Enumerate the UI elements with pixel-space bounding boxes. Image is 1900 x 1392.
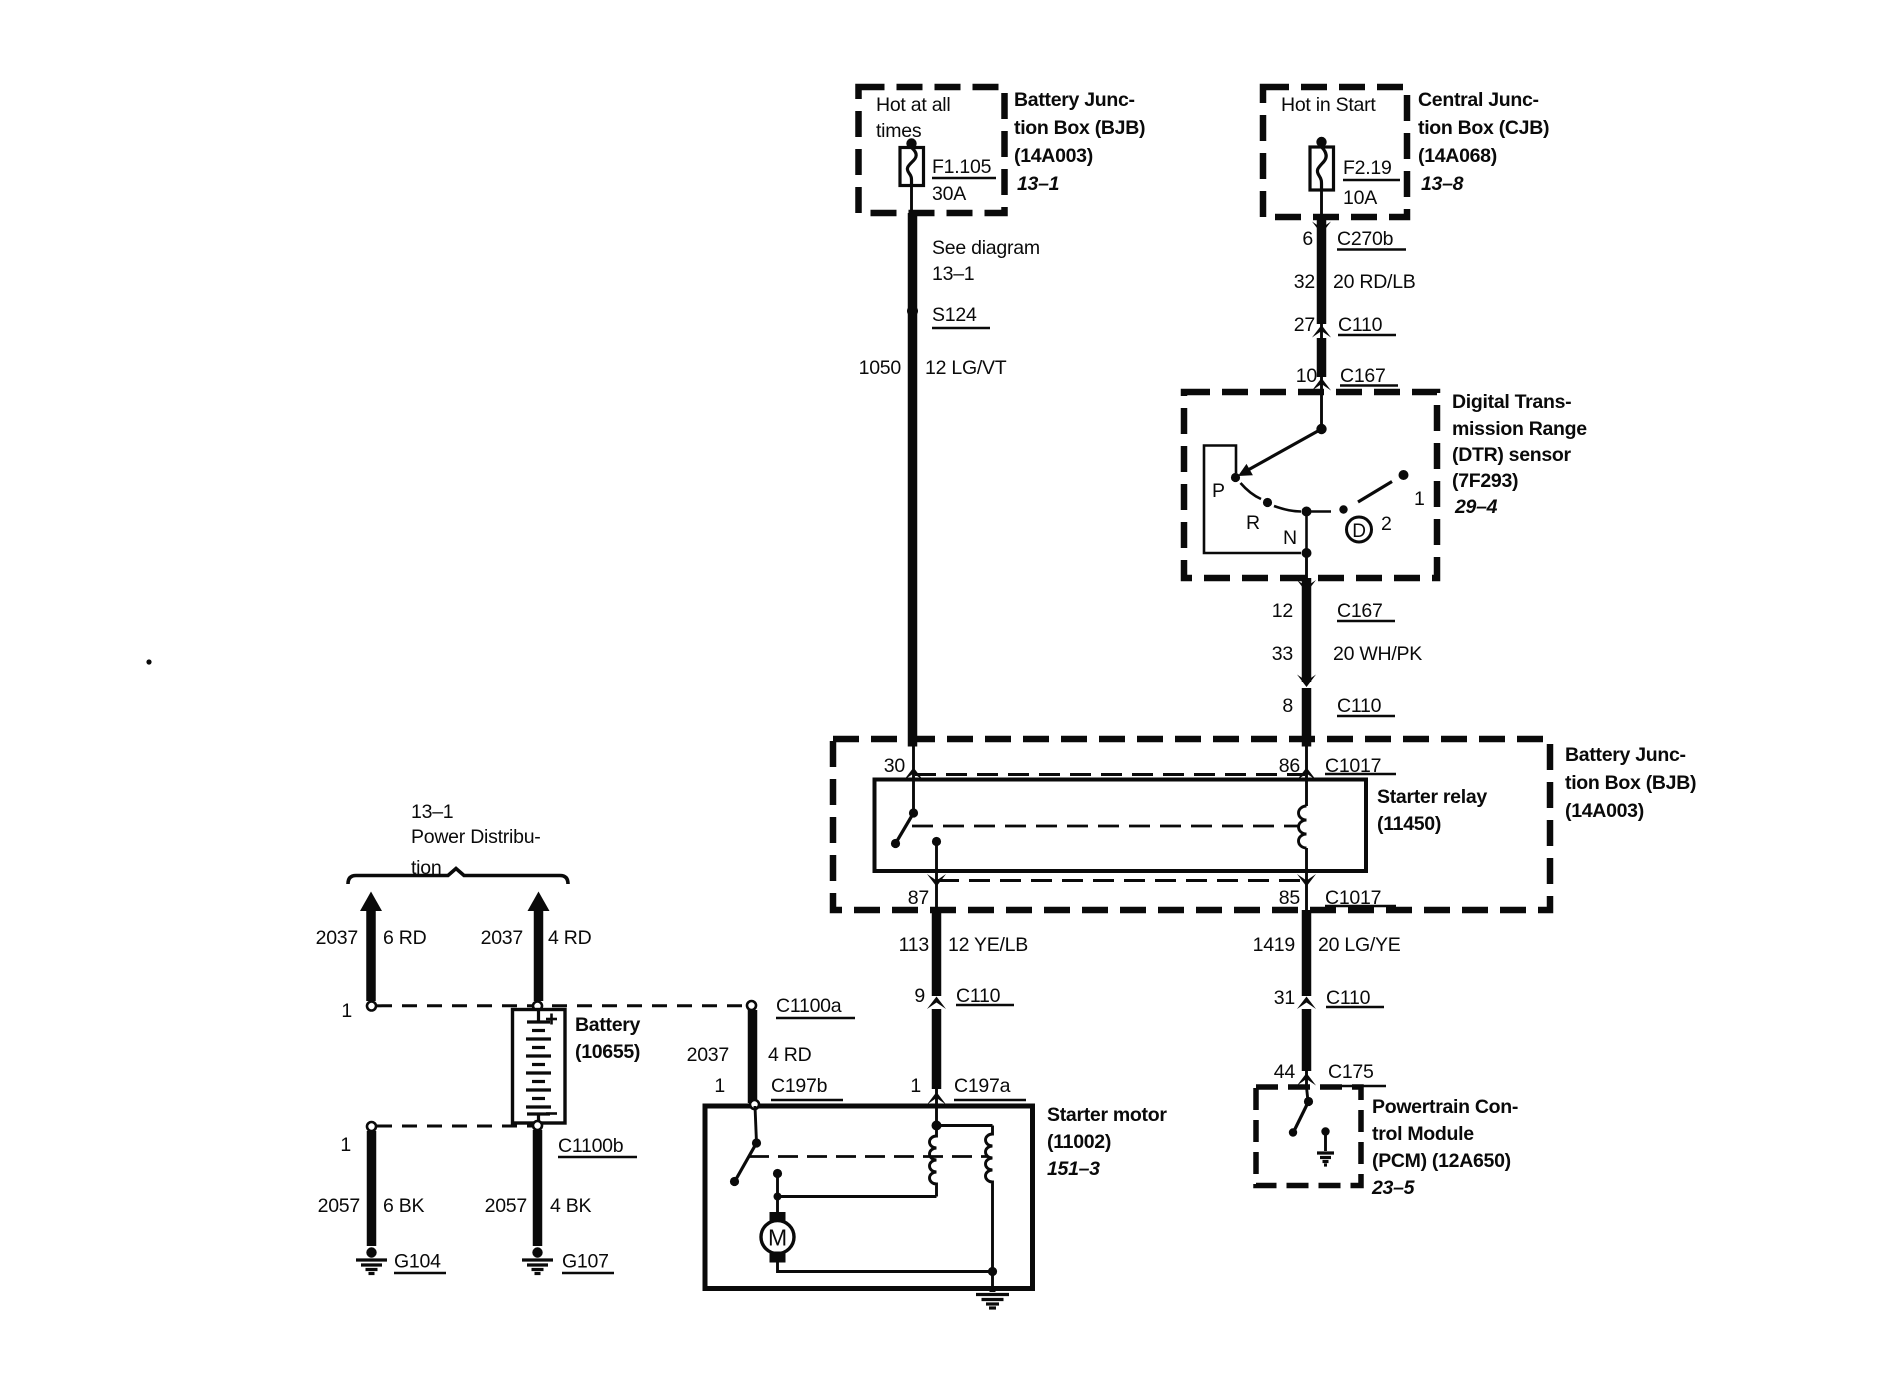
svg-text:C167: C167	[1340, 365, 1386, 387]
svg-text:(11450): (11450)	[1377, 813, 1441, 835]
internal dashed link 87-85	[938, 879, 1305, 882]
svg-text:C175: C175	[1328, 1061, 1374, 1083]
wire 2057 4 BK	[533, 1130, 543, 1246]
label block: Battery Junction Box (BJB) 14A003 13-1	[1014, 89, 1145, 195]
svg-text:1: 1	[1414, 488, 1425, 510]
wire N down to bottom junction	[1305, 512, 1308, 554]
svg-text:mission Range: mission Range	[1452, 418, 1587, 440]
PCM internal ground	[1317, 1127, 1334, 1165]
arrow at C110 (down)	[1297, 675, 1316, 688]
svg-text:2: 2	[1381, 513, 1392, 535]
wire 32 20 RD/LB	[1317, 217, 1327, 324]
arrow into C270b (down)	[1312, 222, 1331, 235]
svg-text:12 LG/VT: 12 LG/VT	[925, 357, 1007, 379]
box Powertrain Control Module	[1256, 1087, 1361, 1186]
svg-text:C110: C110	[1338, 314, 1383, 336]
svg-text:Starter relay: Starter relay	[1377, 786, 1487, 808]
wire 113 12 YE/LB	[932, 910, 942, 996]
svg-text:23–5: 23–5	[1371, 1177, 1416, 1199]
wire N to D contact	[1307, 510, 1332, 513]
wire junction to box edge	[1305, 553, 1308, 578]
svg-text:13–8: 13–8	[1421, 173, 1464, 195]
node solenoid top junction	[932, 1121, 942, 1131]
svg-text:tion Box (BJB): tion Box (BJB)	[1565, 772, 1696, 794]
svg-text:F2.19: F2.19	[1343, 157, 1392, 179]
svg-text:8: 8	[1282, 695, 1293, 717]
label block: DTR sensor	[1452, 391, 1587, 518]
svg-text:C110: C110	[1337, 695, 1382, 717]
svg-text:(14A003): (14A003)	[1014, 145, 1093, 167]
svg-text:tion Box (BJB): tion Box (BJB)	[1014, 117, 1145, 139]
pin 30 lead	[912, 739, 915, 813]
wire junction to hold-in coil	[937, 1124, 993, 1127]
svg-text:Hot in Start: Hot in Start	[1281, 94, 1376, 116]
switch wiper arm with arrowhead to P	[1248, 429, 1322, 470]
wire 2057 6 BK	[367, 1131, 377, 1246]
node motor top dot	[773, 1169, 782, 1178]
ground G107	[522, 1247, 553, 1273]
svg-text:times: times	[876, 120, 922, 142]
svg-text:27: 27	[1294, 314, 1315, 336]
svg-text:F1.105: F1.105	[932, 156, 992, 178]
node N junction	[1302, 507, 1312, 517]
svg-text:1: 1	[910, 1075, 921, 1097]
actuator dashed line	[749, 1155, 988, 1158]
arrow at C197a (up)	[927, 1092, 946, 1105]
svg-text:86: 86	[1279, 755, 1300, 777]
relay switch pivot	[909, 808, 918, 817]
D position circle	[1347, 517, 1372, 542]
svg-text:6 RD: 6 RD	[383, 927, 427, 949]
arrow up wire 2037 4 RD	[534, 908, 544, 1001]
fuse F1.105 30A	[900, 148, 996, 206]
svg-text:30A: 30A	[932, 183, 966, 205]
svg-text:C270b: C270b	[1337, 228, 1394, 250]
wire coil bottom to motor branch	[778, 1195, 937, 1198]
relay contact 87	[932, 837, 941, 846]
contact D-side dot	[1339, 505, 1347, 513]
svg-text:Battery: Battery	[575, 1014, 641, 1036]
svg-text:Battery Junc-: Battery Junc-	[1565, 744, 1686, 766]
node junction on motor lead	[774, 1193, 782, 1201]
node: fuse top junction dot	[1316, 137, 1326, 147]
wire motor bottom to ground run	[778, 1263, 993, 1272]
svg-text:13–1: 13–1	[411, 801, 453, 823]
label block right: Battery Junction Box	[1565, 744, 1696, 822]
box starter motor	[705, 1106, 1033, 1289]
node pin 1 circle	[367, 1002, 376, 1011]
box Battery Junction Box (hot at all times)	[859, 87, 1005, 213]
svg-text:85: 85	[1279, 887, 1301, 909]
svg-text:2057: 2057	[485, 1195, 527, 1217]
contact 1 dot	[1399, 470, 1409, 480]
pin 87 lead	[935, 842, 938, 911]
PCM switch blade	[1294, 1102, 1309, 1132]
svg-text:P: P	[1212, 480, 1225, 502]
arrow at C110 (up)	[1312, 325, 1331, 338]
svg-text:6: 6	[1302, 228, 1313, 250]
lead into PCM	[1307, 1087, 1309, 1102]
connector labels 6 C270b / 32 / 27 C110 / 10 C167	[1294, 228, 1416, 387]
stray print specks	[146, 659, 151, 664]
svg-text:12: 12	[1272, 600, 1293, 622]
svg-text:30: 30	[884, 755, 906, 777]
svg-text:113: 113	[899, 934, 929, 956]
svg-text:trol Module: trol Module	[1372, 1123, 1474, 1145]
svg-text:44: 44	[1274, 1061, 1296, 1083]
svg-text:4 RD: 4 RD	[768, 1044, 812, 1066]
battery (10655)	[513, 1010, 566, 1124]
svg-text:S124: S124	[932, 304, 977, 326]
solenoid switch lead	[755, 1106, 757, 1143]
svg-text:Hot at all: Hot at all	[876, 94, 950, 116]
arrow at C167 (up)	[1312, 378, 1331, 391]
svg-text:1: 1	[340, 1134, 351, 1156]
node wiper junction	[1316, 424, 1326, 434]
svg-text:2057: 2057	[318, 1195, 360, 1217]
starter relay box (11450)	[875, 780, 1367, 872]
node: fuse top junction dot	[906, 138, 916, 148]
svg-text:(14A003): (14A003)	[1565, 800, 1644, 822]
svg-text:N: N	[1283, 527, 1297, 549]
svg-text:1: 1	[341, 1000, 352, 1022]
svg-text:20 RD/LB: 20 RD/LB	[1333, 271, 1416, 293]
arrow at C110 31 (up)	[1297, 997, 1316, 1010]
svg-text:Starter motor: Starter motor	[1047, 1104, 1167, 1126]
svg-text:(10655): (10655)	[575, 1041, 640, 1063]
node ground junction	[988, 1267, 997, 1276]
svg-text:10: 10	[1296, 365, 1318, 387]
fuse F2.19 10A	[1310, 147, 1400, 209]
ground (starter case)	[976, 1289, 1009, 1309]
svg-text:2037: 2037	[316, 927, 358, 949]
svg-text:13–1: 13–1	[932, 263, 974, 285]
svg-text:See diagram: See diagram	[932, 237, 1040, 259]
wire fuse to box edge	[1320, 190, 1323, 217]
svg-text:R: R	[1246, 512, 1260, 534]
node pin 1 circle (ground side)	[367, 1122, 376, 1131]
svg-text:13–1: 13–1	[1017, 173, 1059, 195]
wire 2037 4 RD to C197b	[748, 1010, 758, 1103]
ground G104	[356, 1247, 387, 1273]
svg-text:12 YE/LB: 12 YE/LB	[948, 934, 1028, 956]
box Battery Junction Box (BJB) around relay	[833, 739, 1550, 910]
svg-text:31: 31	[1274, 987, 1295, 1009]
svg-text:C167: C167	[1337, 600, 1383, 622]
C197a lead into solenoid	[935, 1106, 938, 1126]
relay actuator dashed line	[912, 825, 1300, 828]
svg-text:(7F293): (7F293)	[1452, 470, 1518, 492]
svg-text:4 BK: 4 BK	[550, 1195, 592, 1217]
segment toward contact 1	[1358, 482, 1392, 503]
brace	[348, 869, 568, 885]
svg-text:9: 9	[914, 985, 925, 1007]
node battery positive circle	[533, 1002, 542, 1011]
arrow at C175 44 (up)	[1297, 1073, 1316, 1086]
wire 33 20 WH/PK	[1302, 578, 1312, 682]
svg-text:G104: G104	[394, 1251, 441, 1273]
solenoid switch blade	[735, 1143, 757, 1181]
svg-text:20 WH/PK: 20 WH/PK	[1333, 643, 1422, 665]
node battery negative circle	[533, 1121, 542, 1130]
pin 85 lead	[1305, 848, 1308, 910]
svg-text:C1100b: C1100b	[558, 1135, 624, 1157]
svg-text:1: 1	[714, 1075, 725, 1097]
box Digital Transmission Range sensor	[1184, 392, 1437, 578]
node C197b circle on box edge	[750, 1100, 759, 1109]
svg-text:20 LG/YE: 20 LG/YE	[1318, 934, 1401, 956]
svg-text:1050: 1050	[859, 357, 902, 379]
svg-text:87: 87	[908, 887, 929, 909]
svg-text:32: 32	[1294, 271, 1315, 293]
hold-in coil	[986, 1126, 993, 1272]
arrow up wire 2037 6 RD	[366, 908, 376, 1001]
wire into switch	[1320, 392, 1323, 429]
svg-text:2037: 2037	[481, 927, 523, 949]
svg-text:4 RD: 4 RD	[548, 927, 592, 949]
svg-text:C197a: C197a	[954, 1075, 1011, 1097]
splice S124	[907, 306, 918, 317]
arrow at C110 9 (up)	[927, 997, 946, 1010]
svg-text:D: D	[1352, 521, 1365, 542]
svg-text:C1100a: C1100a	[776, 995, 842, 1017]
svg-text:2037: 2037	[687, 1044, 729, 1066]
svg-text:(11002): (11002)	[1047, 1131, 1111, 1153]
node PCM input dot	[1304, 1097, 1313, 1106]
wire 1050 12 LG/VT	[908, 213, 918, 747]
svg-text:Battery Junc-: Battery Junc-	[1014, 89, 1135, 111]
svg-text:29–4: 29–4	[1454, 496, 1498, 518]
svg-text:Digital Trans-: Digital Trans-	[1452, 391, 1571, 413]
svg-text:Powertrain Con-: Powertrain Con-	[1372, 1096, 1518, 1118]
contact arc P-R-N	[1241, 483, 1262, 499]
arrow at C167 (down)	[1297, 580, 1316, 593]
internal dashed link 30-86	[915, 773, 1305, 776]
svg-text:C197b: C197b	[771, 1075, 828, 1097]
pin 86 lead	[1305, 739, 1308, 806]
dashed link pin1 to battery negative	[377, 1125, 532, 1128]
wire to case ground	[991, 1272, 994, 1292]
svg-text:6 BK: 6 BK	[383, 1195, 425, 1217]
relay coil	[1299, 806, 1307, 848]
pull-in coil	[930, 1126, 937, 1197]
wire 1419 20 LG/YE	[1302, 910, 1312, 996]
motor M (starter)	[761, 1212, 794, 1263]
dashed link pin1 to battery + to C1100a	[377, 1004, 747, 1007]
relay switch blade	[896, 813, 914, 844]
svg-text:10A: 10A	[1343, 187, 1377, 209]
svg-text:M: M	[768, 1225, 787, 1251]
label block: Central Junction Box (CJB) 14A068 13-8	[1418, 89, 1549, 195]
wire motor top	[776, 1174, 779, 1214]
node C1100a circle	[747, 1001, 756, 1010]
svg-text:33: 33	[1272, 643, 1293, 665]
box Central Junction Box (hot in start)	[1263, 87, 1407, 217]
contact P	[1231, 473, 1240, 482]
wire fuse to box edge	[910, 186, 913, 214]
svg-text:(DTR) sensor: (DTR) sensor	[1452, 444, 1572, 466]
svg-text:(14A068): (14A068)	[1418, 145, 1497, 167]
svg-text:G107: G107	[562, 1251, 609, 1273]
svg-text:Power Distribu-: Power Distribu-	[411, 826, 541, 848]
svg-text:1419: 1419	[1253, 934, 1295, 956]
node bottom junction	[1302, 548, 1312, 558]
svg-text:(PCM) (12A650): (PCM) (12A650)	[1372, 1150, 1511, 1172]
svg-text:tion Box (CJB): tion Box (CJB)	[1418, 117, 1549, 139]
L-shaped wire P to N bottom	[1204, 446, 1301, 554]
svg-text:151–3: 151–3	[1047, 1158, 1100, 1180]
svg-text:Central Junc-: Central Junc-	[1418, 89, 1539, 111]
